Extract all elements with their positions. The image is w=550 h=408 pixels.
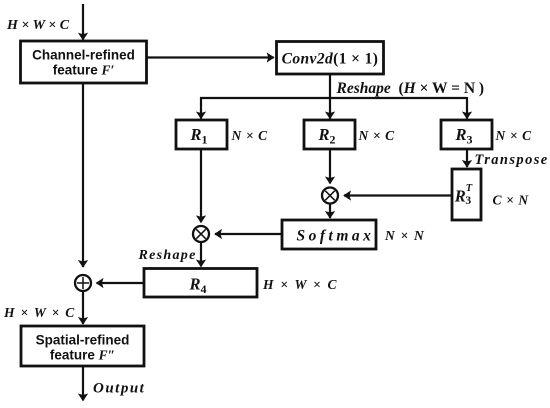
- svg-text:Softmax: Softmax: [297, 228, 375, 245]
- svg-text:N × C: N × C: [495, 128, 533, 143]
- svg-text:RT3: RT3: [454, 183, 473, 207]
- svg-text:N × C: N × C: [231, 128, 269, 143]
- svg-text:N × N: N × N: [384, 228, 425, 243]
- svg-text:H × W × C: H × W × C: [6, 18, 70, 33]
- svg-text:H × W × C: H × W × C: [262, 277, 338, 292]
- svg-text:C × N: C × N: [493, 193, 530, 208]
- svg-text:Spatial-refined: Spatial-refined: [36, 333, 130, 348]
- svg-text:N × C: N × C: [358, 128, 396, 143]
- svg-text:Transpose: Transpose: [475, 152, 549, 168]
- svg-text:Reshape: Reshape: [138, 248, 197, 263]
- svg-text:feature F″: feature F″: [50, 348, 115, 363]
- svg-text:Conv2d(1 × 1): Conv2d(1 × 1): [282, 51, 379, 68]
- svg-text:H × W × C: H × W × C: [3, 305, 76, 320]
- svg-text:feature F′: feature F′: [53, 63, 115, 78]
- svg-text:Channel-refined: Channel-refined: [32, 48, 135, 63]
- svg-text:Reshape (H × W = N ): Reshape (H × W = N ): [336, 80, 485, 97]
- svg-text:Output: Output: [93, 381, 145, 397]
